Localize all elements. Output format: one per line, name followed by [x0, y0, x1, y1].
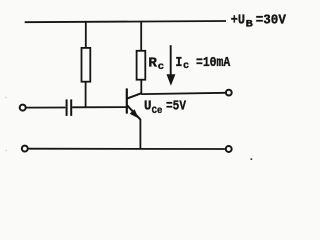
transistor Q1 emitter lead — [127, 105, 140, 119]
arrow: IC current arrow — [170, 45, 172, 76]
wire: RC bottom lead to collector node — [140, 80, 142, 95]
wire: base-divider resistor top lead — [85, 22, 87, 49]
terminal: bottom right — [226, 146, 232, 152]
capacitor C1 left plate — [66, 99, 68, 116]
svg-text:Ce: Ce — [152, 105, 163, 117]
wire: RC top lead — [140, 21, 142, 51]
transistor Q1 emitter arrowhead — [130, 109, 139, 118]
terminal: output collector (right middle) — [226, 90, 232, 96]
svg-text:B: B — [246, 19, 254, 31]
wire: input terminal to capacitor — [26, 107, 65, 109]
wire: emitter lead down — [139, 119, 141, 149]
speck (scan artifact) — [5, 150, 7, 152]
svg-text:=30V: =30V — [256, 14, 287, 29]
wire: bottom common rail — [29, 148, 225, 150]
capacitor C1 right plate — [70, 99, 72, 116]
wire: base-divider resistor bottom lead to base node — [85, 82, 87, 108]
svg-text:R: R — [148, 57, 158, 72]
svg-text:c: c — [183, 60, 189, 72]
terminal: input (left middle) — [20, 105, 26, 111]
wire: collector node to output terminal — [141, 93, 225, 94]
speck (scan artifact) — [5, 97, 7, 99]
svg-text:U: U — [144, 100, 151, 115]
transistor Q1 collector lead — [127, 93, 141, 98]
terminal: bottom left — [22, 146, 28, 152]
transistor Q1 base bar — [126, 88, 128, 113]
resistor R1 (base resistor) — [82, 48, 91, 82]
svg-text:=5V: =5V — [166, 100, 187, 115]
speck (scan artifact) — [250, 158, 252, 160]
resistor RC — [137, 51, 146, 80]
svg-text:=10mA: =10mA — [196, 56, 231, 71]
svg-text:+U: +U — [231, 14, 245, 29]
wire: +UB supply rail (top) — [25, 21, 226, 22]
wire: capacitor to base — [72, 106, 126, 108]
svg-text:I: I — [175, 56, 182, 71]
svg-text:c: c — [158, 61, 164, 73]
